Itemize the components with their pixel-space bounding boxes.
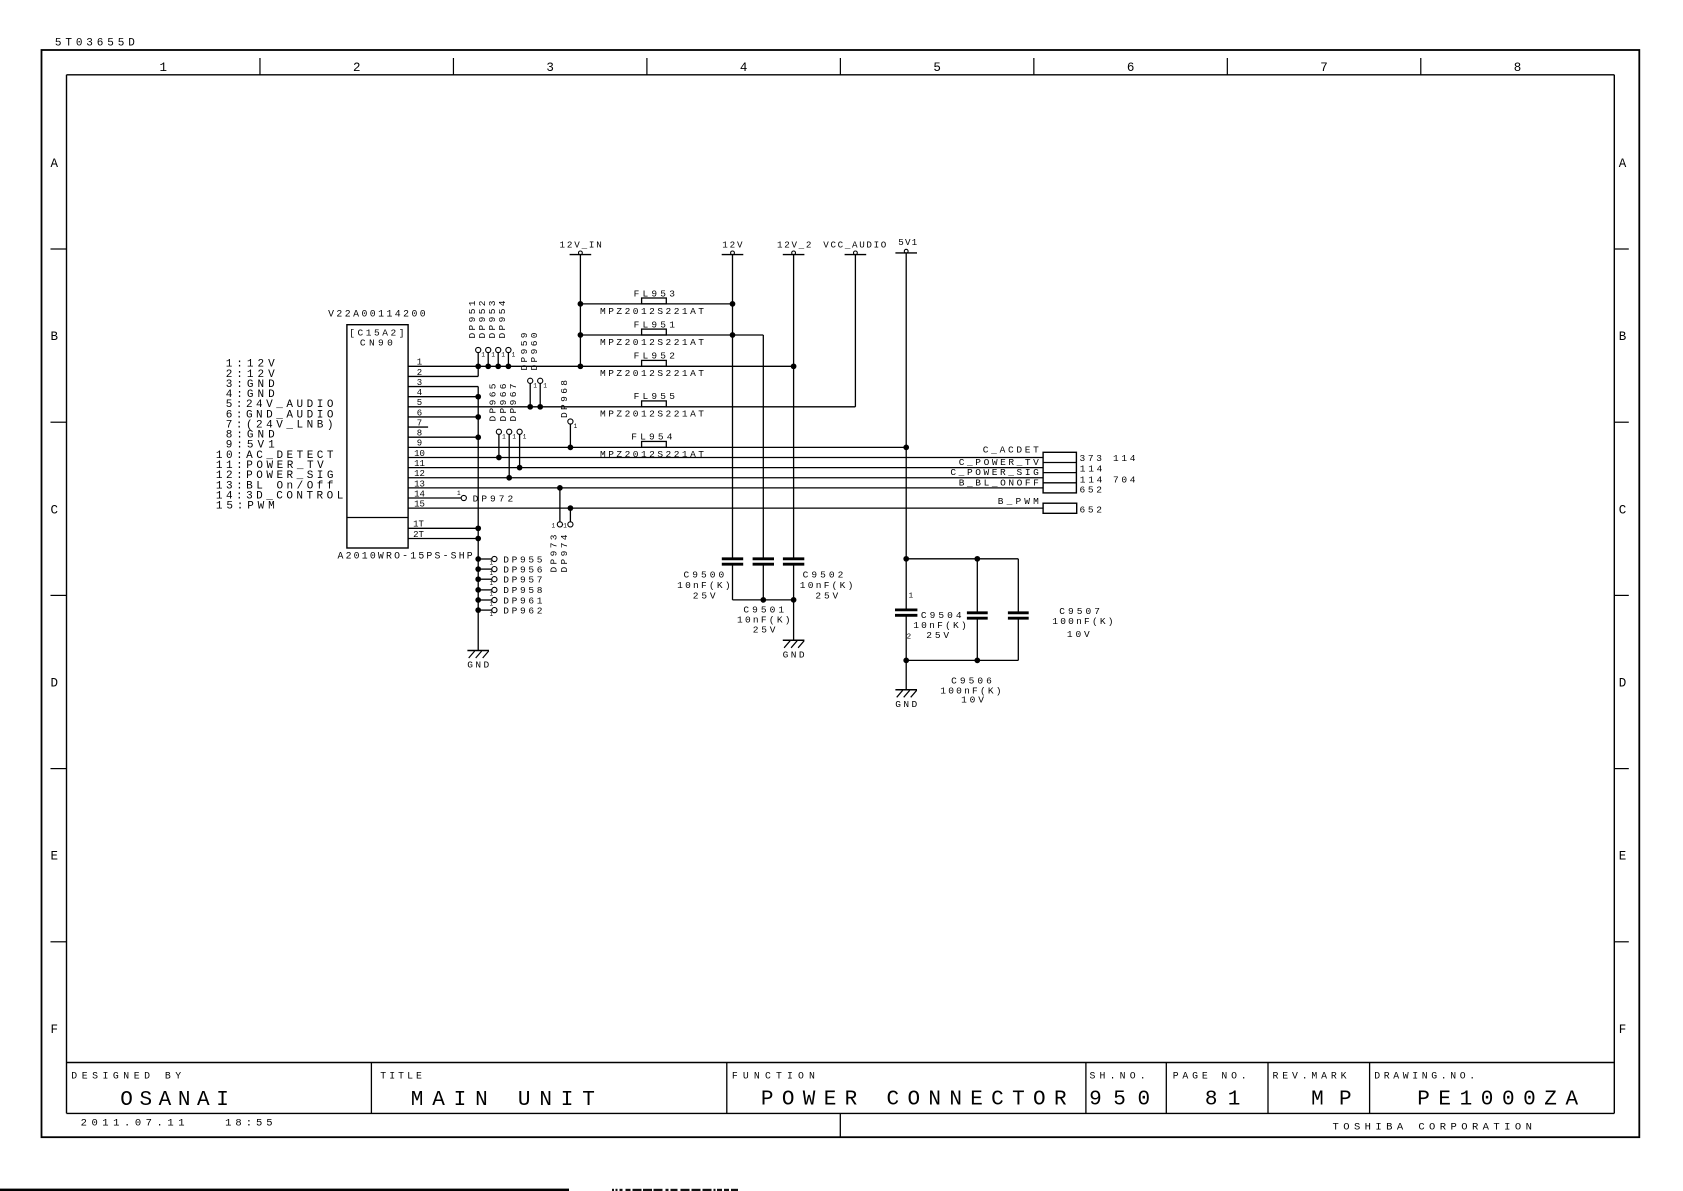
svg-text:100nF(K): 100nF(K)	[1052, 616, 1113, 627]
svg-text:1: 1	[574, 423, 578, 430]
svg-text:GND: GND	[895, 699, 917, 710]
svg-text:A2010WRO-15PS-SHP: A2010WRO-15PS-SHP	[338, 551, 473, 562]
svg-text:GND: GND	[467, 660, 489, 671]
svg-text:1: 1	[490, 560, 494, 567]
svg-text:12V_2: 12V_2	[777, 240, 811, 251]
svg-text:1: 1	[512, 352, 516, 359]
svg-text:TITLE: TITLE	[380, 1070, 422, 1081]
svg-text:GND: GND	[783, 649, 805, 660]
svg-text:E: E	[50, 850, 58, 864]
svg-text:B: B	[50, 330, 58, 344]
svg-text:MPZ2012S221AT: MPZ2012S221AT	[600, 449, 704, 460]
svg-text:114: 114	[1113, 453, 1136, 464]
svg-text:DP968: DP968	[559, 380, 570, 418]
svg-text:CN90: CN90	[360, 338, 393, 349]
svg-text:REV.MARK: REV.MARK	[1273, 1070, 1347, 1081]
svg-text:1: 1	[552, 523, 556, 530]
svg-text:1: 1	[481, 352, 485, 359]
svg-text:704: 704	[1113, 475, 1136, 486]
svg-text:1: 1	[512, 433, 516, 440]
svg-text:1: 1	[490, 591, 494, 598]
svg-text:1: 1	[457, 490, 461, 497]
svg-text:B: B	[1619, 330, 1627, 344]
svg-text:MPZ2012S221AT: MPZ2012S221AT	[600, 306, 704, 317]
svg-text:C_POWER_SIG: C_POWER_SIG	[950, 467, 1039, 478]
svg-text:V22A00114200: V22A00114200	[328, 309, 426, 320]
svg-text:1: 1	[490, 601, 494, 608]
svg-text:DRAWING.NO.: DRAWING.NO.	[1374, 1070, 1475, 1081]
svg-text:18:55: 18:55	[225, 1117, 273, 1129]
svg-text:12V_IN: 12V_IN	[560, 240, 602, 251]
svg-text:MP: MP	[1311, 1089, 1352, 1112]
svg-text:5: 5	[933, 61, 941, 75]
svg-text:DP973: DP973	[549, 534, 560, 572]
svg-text:114: 114	[1080, 464, 1103, 475]
svg-text:2: 2	[907, 634, 912, 642]
svg-text:TOSHIBA CORPORATION: TOSHIBA CORPORATION	[1333, 1122, 1532, 1134]
svg-text:1: 1	[490, 570, 494, 577]
svg-text:FL952: FL952	[634, 351, 676, 362]
svg-text:6: 6	[1127, 61, 1135, 75]
svg-text:3: 3	[546, 61, 554, 75]
svg-text:25V: 25V	[815, 590, 838, 601]
svg-text:C_ACDET: C_ACDET	[983, 445, 1039, 456]
svg-text:C_POWER_TV: C_POWER_TV	[959, 457, 1039, 468]
svg-text:FL954: FL954	[631, 432, 673, 443]
svg-text:E: E	[1619, 850, 1627, 864]
svg-text:DP962: DP962	[503, 605, 542, 616]
svg-text:1: 1	[491, 352, 495, 359]
svg-text:652: 652	[1080, 505, 1103, 516]
svg-text:1: 1	[159, 61, 167, 75]
svg-text:7: 7	[1320, 61, 1328, 75]
svg-text:B_PWM: B_PWM	[998, 496, 1039, 507]
svg-text:25V: 25V	[693, 590, 716, 601]
svg-text:[C15A2]: [C15A2]	[349, 328, 404, 339]
svg-text:25V: 25V	[926, 630, 949, 641]
svg-text:1: 1	[533, 382, 537, 389]
svg-text:2: 2	[353, 61, 361, 75]
svg-text:81: 81	[1205, 1089, 1240, 1112]
svg-text:B_BL_ONOFF: B_BL_ONOFF	[959, 478, 1039, 489]
svg-text:5T03655D: 5T03655D	[55, 38, 135, 50]
svg-text:14:3D_CONTROL: 14:3D_CONTROL	[216, 490, 343, 502]
svg-text:4: 4	[740, 61, 748, 75]
svg-text:1: 1	[543, 382, 547, 389]
svg-text:MPZ2012S221AT: MPZ2012S221AT	[600, 409, 704, 420]
svg-text:1: 1	[523, 433, 527, 440]
svg-text:C9500: C9500	[684, 570, 725, 581]
svg-text:A: A	[50, 157, 58, 171]
svg-text:1: 1	[490, 580, 494, 587]
svg-text:C: C	[50, 503, 58, 517]
svg-text:8: 8	[1514, 61, 1522, 75]
svg-text:F: F	[1619, 1023, 1627, 1037]
svg-text:10V: 10V	[1067, 629, 1090, 640]
svg-text:373: 373	[1080, 453, 1103, 464]
svg-text:MPZ2012S221AT: MPZ2012S221AT	[600, 337, 704, 348]
svg-text:POWER CONNECTOR: POWER CONNECTOR	[761, 1089, 1067, 1112]
svg-text:10V: 10V	[961, 695, 984, 706]
svg-text:DESIGNED BY: DESIGNED BY	[71, 1070, 181, 1081]
svg-text:1: 1	[501, 352, 505, 359]
svg-text:PAGE NO.: PAGE NO.	[1173, 1070, 1247, 1081]
svg-text:2011.07.11: 2011.07.11	[81, 1117, 185, 1129]
svg-text:OSANAI: OSANAI	[120, 1089, 229, 1112]
svg-text:1: 1	[563, 523, 567, 530]
svg-text:SH.NO.: SH.NO.	[1090, 1070, 1146, 1081]
svg-text:12V: 12V	[722, 240, 743, 251]
svg-text:5V1: 5V1	[898, 237, 917, 248]
svg-text:C9502: C9502	[803, 570, 844, 581]
svg-text:652: 652	[1080, 485, 1103, 496]
svg-text:MAIN UNIT: MAIN UNIT	[411, 1089, 595, 1112]
svg-text:C: C	[1619, 503, 1627, 517]
svg-text:DP960: DP960	[529, 332, 540, 370]
svg-text:DP957: DP957	[503, 575, 542, 586]
svg-text:FL955: FL955	[634, 391, 676, 402]
svg-text:DP966: DP966	[498, 383, 509, 421]
svg-text:FL951: FL951	[634, 319, 676, 330]
svg-text:FL953: FL953	[634, 288, 676, 299]
svg-text:PE1000ZA: PE1000ZA	[1417, 1089, 1578, 1112]
svg-text:25V: 25V	[753, 625, 776, 636]
svg-text:FUNCTION: FUNCTION	[732, 1070, 815, 1081]
svg-text:1: 1	[909, 593, 914, 601]
svg-text:D: D	[1619, 677, 1627, 691]
svg-text:1: 1	[502, 433, 506, 440]
svg-text:VCC_AUDIO: VCC_AUDIO	[823, 240, 886, 251]
svg-text:A: A	[1619, 157, 1627, 171]
svg-text:DP974: DP974	[559, 534, 570, 572]
svg-text:1: 1	[490, 611, 494, 618]
svg-text:950: 950	[1089, 1089, 1150, 1112]
svg-text:DP967: DP967	[508, 384, 519, 422]
svg-text:F: F	[50, 1023, 58, 1037]
svg-text:MPZ2012S221AT: MPZ2012S221AT	[600, 368, 704, 379]
svg-text:DP954: DP954	[497, 300, 508, 338]
svg-text:D: D	[50, 677, 58, 691]
